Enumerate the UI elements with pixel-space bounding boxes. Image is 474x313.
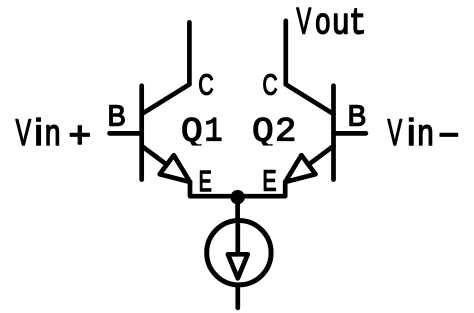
svg-text:1: 1 (204, 112, 222, 151)
net label Vin+ (16, 112, 92, 155)
svg-text:V: V (296, 0, 311, 41)
svg-text:C: C (262, 70, 277, 102)
svg-text:+: + (69, 114, 92, 155)
svg-text:Q: Q (252, 112, 273, 151)
svg-text:E: E (262, 166, 276, 198)
svg-text:B: B (107, 101, 125, 133)
wire Q2 collector up to Vout (283, 21, 288, 85)
wire Q1 base lead (110, 131, 142, 136)
svg-text:n: n (418, 112, 434, 153)
svg-text:i: i (407, 112, 416, 153)
svg-text:−: − (438, 114, 459, 155)
current source I1 (207, 221, 271, 285)
svg-text:E: E (199, 166, 212, 198)
wire Q2 emitter to tail node (238, 182, 286, 196)
node tail junction (230, 190, 244, 204)
svg-text:t: t (349, 3, 367, 44)
wire tail node to current source (235, 196, 240, 222)
net label Vin- (388, 112, 460, 155)
net label Vout (296, 0, 366, 44)
wire Q2 base lead (334, 131, 366, 136)
wire current source to bottom (235, 286, 240, 308)
svg-text:C: C (198, 69, 213, 101)
svg-text:u: u (333, 0, 350, 41)
wire Q1 emitter to tail node (190, 182, 238, 196)
transistor Q2 (285, 84, 333, 182)
svg-text:2: 2 (275, 112, 296, 151)
transistor Q1 (142, 84, 190, 182)
label Q2 (252, 112, 296, 151)
svg-text:o: o (315, 0, 330, 41)
label Q1 (181, 112, 223, 151)
svg-text:V: V (16, 112, 32, 153)
svg-text:V: V (388, 112, 403, 153)
wire Q1 collector up (187, 22, 192, 84)
svg-text:B: B (348, 101, 367, 133)
svg-text:Q: Q (181, 112, 203, 151)
svg-text:i: i (34, 112, 43, 153)
svg-text:n: n (45, 112, 61, 153)
